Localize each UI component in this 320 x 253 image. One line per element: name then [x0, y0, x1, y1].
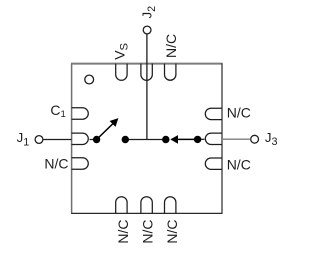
svg-text:N/C: N/C	[163, 34, 179, 58]
node D (J3 pole dot)	[194, 136, 201, 143]
pin J2 notch (top center)	[141, 64, 152, 81]
node A (J1 pole dot)	[93, 136, 100, 143]
pin N/C notch (right bottom)	[205, 158, 222, 169]
svg-text:C1: C1	[50, 102, 65, 120]
wire J1 terminal to package edge	[43, 139, 71, 141]
wire common rail node B to node C	[125, 139, 166, 141]
svg-text:N/C: N/C	[139, 219, 155, 243]
node B (common throw dot, left)	[122, 136, 129, 143]
wire stub J1 notch tip to node A	[90, 139, 97, 141]
svg-text:J1: J1	[17, 130, 30, 148]
pin J3 notch (right middle)	[205, 133, 222, 144]
terminal J2 circle	[143, 26, 151, 34]
pin VS notch (top)	[116, 64, 127, 81]
pin N/C notch (bottom right)	[165, 197, 176, 214]
node C (common throw dot, right)	[162, 136, 169, 143]
svg-text:N/C: N/C	[44, 155, 68, 171]
pin J1 notch (left middle)	[72, 133, 89, 144]
pin N/C notch (right top)	[205, 108, 222, 119]
package outline U1 right edge	[221, 63, 223, 213]
terminal J3 circle	[251, 135, 259, 143]
svg-text:N/C: N/C	[227, 156, 251, 172]
terminal J1 circle	[35, 136, 43, 144]
switch arm SW2 (closed, J3 side) wire	[177, 138, 198, 140]
package outline U1 left edge	[71, 64, 73, 214]
pin N/C notch (top right)	[165, 64, 176, 81]
pin C1 notch (left)	[72, 108, 89, 119]
pin N/C notch (bottom left)	[116, 197, 127, 214]
svg-text:VS: VS	[112, 42, 131, 59]
svg-text:J2: J2	[139, 6, 157, 19]
switch arm SW1 (open, J1 side) wire	[97, 123, 114, 140]
pin N/C notch (bottom center)	[141, 197, 152, 214]
wire J2 terminal down to common rail	[146, 34, 148, 139]
switch arm SW2 arrowhead	[170, 135, 178, 144]
svg-text:N/C: N/C	[164, 219, 180, 243]
package outline U1 top edge	[71, 63, 223, 65]
switch arm SW1 arrowhead	[110, 118, 119, 127]
svg-text:N/C: N/C	[227, 104, 251, 120]
svg-text:J3: J3	[265, 130, 278, 148]
wire J3 terminal to package edge	[222, 138, 250, 140]
package outline U1 bottom edge	[71, 212, 222, 214]
pin 1 indicator circle	[85, 75, 94, 84]
wire stub node D to J3 notch tip	[198, 138, 205, 140]
svg-text:N/C: N/C	[115, 219, 131, 243]
pin N/C notch (left bottom)	[72, 158, 89, 169]
